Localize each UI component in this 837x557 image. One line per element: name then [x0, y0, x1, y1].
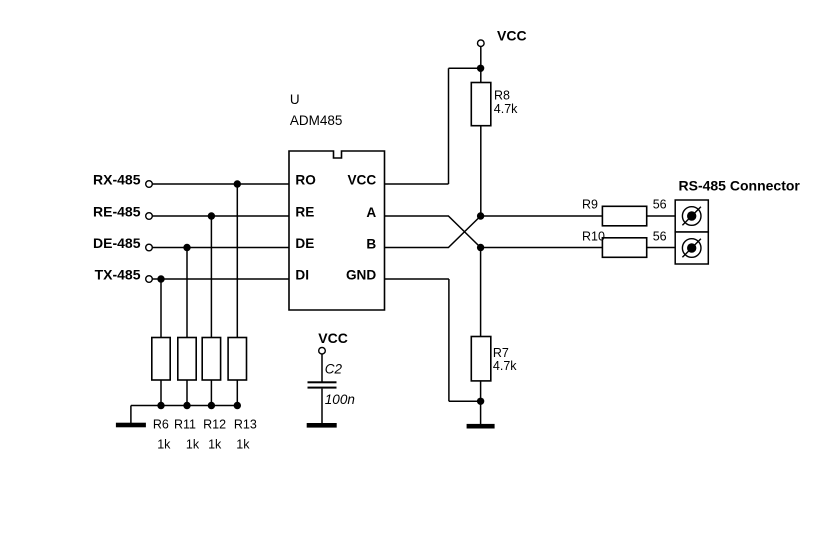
svg-text:R12: R12 [203, 418, 226, 432]
svg-text:56: 56 [653, 197, 667, 211]
svg-text:TX-485: TX-485 [95, 266, 141, 282]
svg-text:R13: R13 [234, 418, 257, 432]
svg-text:DE: DE [295, 236, 314, 251]
svg-text:C2: C2 [325, 362, 343, 377]
svg-text:A: A [366, 205, 376, 220]
svg-text:R10: R10 [582, 229, 605, 243]
svg-text:DE-485: DE-485 [93, 235, 141, 251]
svg-text:RE: RE [295, 204, 314, 219]
svg-text:4.7k: 4.7k [494, 102, 518, 116]
svg-text:4.7k: 4.7k [493, 359, 517, 373]
svg-text:RX-485: RX-485 [93, 171, 141, 187]
svg-text:1k: 1k [236, 438, 250, 452]
svg-text:DI: DI [295, 267, 309, 282]
svg-text:1k: 1k [208, 438, 222, 452]
svg-text:RO: RO [295, 172, 315, 187]
svg-text:R7: R7 [493, 346, 509, 360]
svg-text:R8: R8 [494, 89, 510, 103]
svg-text:U: U [290, 92, 300, 107]
svg-text:ADM485: ADM485 [290, 113, 343, 128]
svg-text:R9: R9 [582, 197, 598, 211]
svg-text:100n: 100n [325, 392, 355, 407]
svg-text:R11: R11 [174, 418, 196, 432]
svg-text:R6: R6 [153, 418, 169, 432]
svg-text:1k: 1k [157, 438, 171, 452]
svg-text:VCC: VCC [318, 330, 348, 346]
svg-text:1k: 1k [186, 438, 200, 452]
svg-text:RS-485 Connector: RS-485 Connector [679, 177, 801, 193]
svg-text:B: B [366, 237, 376, 252]
svg-text:RE-485: RE-485 [93, 203, 141, 219]
svg-text:GND: GND [346, 267, 376, 282]
svg-text:56: 56 [653, 229, 667, 243]
svg-text:VCC: VCC [347, 172, 376, 187]
svg-text:VCC: VCC [497, 27, 527, 43]
